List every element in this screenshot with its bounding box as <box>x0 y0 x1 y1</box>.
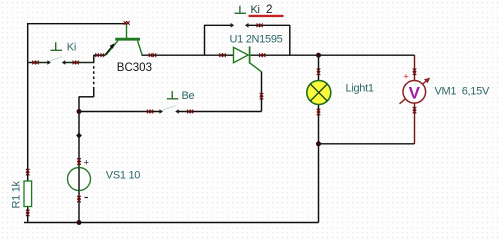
wire top right to voltmeter <box>290 54 415 56</box>
wire lamp top lead <box>318 55 320 81</box>
x marks voltmeter top <box>413 69 417 76</box>
x marks Be right <box>187 110 193 114</box>
svg-text:+: + <box>403 71 409 82</box>
selection handle on VS1 riser <box>76 133 82 139</box>
x marks R1 bottom <box>26 210 30 216</box>
wire step to emitter <box>93 55 95 63</box>
wire voltmeter return <box>319 143 415 145</box>
switch Ki2 pole symbol <box>235 6 247 14</box>
thyristor U1 triangle <box>234 47 249 62</box>
transistor BC303 base bar <box>115 38 140 41</box>
resistor R1 body <box>24 181 32 207</box>
switch Ki2 contact arrows <box>231 23 235 28</box>
thyristor U1 gate diagonal <box>250 63 262 72</box>
wire voltmeter bottom lead <box>414 103 416 144</box>
wire Be left <box>79 111 160 113</box>
x marks Ki right <box>73 61 79 65</box>
wire selected dashed segment <box>93 64 95 90</box>
wire VS1 vertical riser <box>78 97 80 168</box>
x marks Ki2 <box>257 24 263 28</box>
transistor BC303 collector leg <box>138 41 143 55</box>
x marks thyristor anode <box>219 53 226 57</box>
switch Ki blade (faint) <box>48 57 62 62</box>
wire jog above VS1 <box>79 96 94 98</box>
svg-text:VM1 6,15V: VM1 6,15V <box>435 86 490 98</box>
source VS1 minus sign <box>85 197 89 199</box>
svg-text:Ki: Ki <box>251 4 260 16</box>
junction dot lamp bottom <box>316 141 321 146</box>
x marks lamp bottom <box>317 109 321 115</box>
svg-text:BC303: BC303 <box>117 62 152 74</box>
voltmeter VM1 needle arrow <box>400 80 429 104</box>
wire Ki2 right <box>248 24 290 26</box>
voltmeter VM1 body <box>403 81 426 104</box>
switch Be pole symbol <box>167 91 179 99</box>
x marks Ki left <box>32 61 39 65</box>
svg-text:2: 2 <box>266 4 272 16</box>
junction dot Be tap <box>77 109 82 114</box>
x marks VS1 bottom <box>77 196 81 203</box>
switch Be contact arrows <box>159 109 163 114</box>
svg-text:Ki: Ki <box>67 42 76 54</box>
wire voltmeter top lead <box>414 55 416 81</box>
wire Ki2 loop right vertical <box>289 25 291 55</box>
svg-text:U1 2N1595: U1 2N1595 <box>230 33 283 45</box>
x marks R1 top <box>26 169 30 176</box>
x marks Be left <box>147 110 153 114</box>
x mark base top <box>124 21 130 25</box>
x marks VS1 top <box>77 158 81 165</box>
x marks emitter <box>95 53 104 57</box>
switch Be blade (faint) <box>161 106 176 111</box>
transistor Q BC303 base lead <box>126 25 128 39</box>
wire bottom rail <box>24 222 319 224</box>
transistor BC303 emitter leg <box>106 41 118 55</box>
svg-text:Be: Be <box>182 90 195 102</box>
wire Be right <box>178 111 261 113</box>
svg-text:V: V <box>409 83 421 102</box>
switch Ki2 red underline <box>249 15 284 17</box>
lamp Light1 body <box>307 81 331 105</box>
x marks voltmeter bottom <box>413 107 417 113</box>
wire Ki2 loop left vertical <box>204 25 206 55</box>
wire thyristor cathode <box>251 54 291 56</box>
wire switch Ki left <box>27 62 48 64</box>
transistor BC303 emitter arrow <box>105 45 113 55</box>
svg-text:+: + <box>84 158 90 169</box>
x marks lamp top <box>317 69 321 76</box>
thyristor U1 cathode bar <box>249 46 251 63</box>
source VS1 internal line <box>78 168 80 191</box>
wire Ki2 left <box>204 24 231 26</box>
x marks gate <box>260 93 264 99</box>
wire left border <box>27 23 29 181</box>
wire gate vertical <box>261 72 263 112</box>
wire left border lower (below R1) <box>27 207 29 223</box>
wire short solid below dashed <box>93 90 95 97</box>
switch Ki pole symbol <box>51 42 63 50</box>
junction dot lamp top <box>316 53 321 58</box>
wire lamp bottom lead <box>318 105 320 144</box>
wire thyristor anode <box>204 54 234 56</box>
switch Ki contact arrows <box>47 60 51 65</box>
x marks thyristor cathode <box>259 53 265 57</box>
svg-text:R1 1k: R1 1k <box>11 180 23 208</box>
wire right bottom vertical <box>318 144 320 223</box>
wire top (base feed) <box>27 23 127 25</box>
wire collector to thyristor <box>142 54 205 56</box>
svg-text:Light1: Light1 <box>346 83 374 95</box>
wire VS1 bottom lead <box>78 191 80 223</box>
wire switch Ki right <box>65 62 95 64</box>
svg-text:VS1 10: VS1 10 <box>106 169 140 181</box>
x marks collector <box>149 53 157 57</box>
lamp Light1 cross <box>310 84 327 101</box>
wire emitter <box>94 54 105 56</box>
source VS1 body <box>68 168 91 191</box>
terminal x marks <box>26 21 416 216</box>
junction dot VS1 bottom <box>77 220 82 225</box>
